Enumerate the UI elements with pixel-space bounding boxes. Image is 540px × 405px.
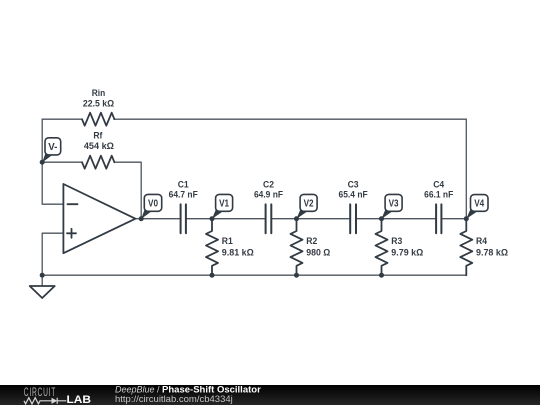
node V- bbox=[42, 138, 61, 163]
resistor R4 bbox=[460, 219, 472, 276]
wire C3 to C4 bbox=[356, 218, 436, 220]
capacitor C3 bbox=[350, 204, 356, 233]
junction V4 bbox=[464, 216, 469, 221]
capacitor C2 bbox=[266, 204, 272, 233]
label C2 64.9 nF bbox=[254, 180, 283, 201]
svg-text:9.78 kΩ: 9.78 kΩ bbox=[476, 247, 508, 258]
node V4 bbox=[466, 195, 488, 219]
resistor Rf bbox=[82, 156, 114, 169]
wire plus input to ground rail bbox=[42, 233, 63, 275]
svg-text:V2: V2 bbox=[304, 199, 314, 210]
resistor R2 bbox=[291, 219, 303, 276]
svg-text:R4: R4 bbox=[476, 236, 488, 247]
label C3 65.4 nF bbox=[339, 180, 368, 201]
label R1 9.81 kOhm bbox=[222, 236, 254, 258]
node V0 bbox=[141, 194, 162, 219]
svg-text:454 kΩ: 454 kΩ bbox=[84, 141, 114, 152]
svg-text:V-: V- bbox=[48, 142, 57, 153]
svg-text:64.7 nF: 64.7 nF bbox=[169, 190, 198, 201]
capacitor C1 bbox=[181, 204, 186, 233]
junction V2 bbox=[294, 216, 299, 221]
wire top feedback left-to-right bbox=[42, 118, 466, 120]
wire C2 to C3 bbox=[271, 218, 350, 220]
svg-text:LAB: LAB bbox=[67, 394, 92, 405]
svg-text:66.1 nF: 66.1 nF bbox=[424, 190, 453, 201]
svg-text:V1: V1 bbox=[219, 199, 230, 210]
svg-text:64.9 nF: 64.9 nF bbox=[254, 190, 283, 201]
resistor R1 bbox=[206, 219, 218, 276]
junction ground node bbox=[40, 273, 45, 278]
footer bar bbox=[0, 385, 540, 405]
wire left vertical (V- net) bbox=[42, 119, 63, 204]
resistor R3 bbox=[376, 219, 388, 276]
junction R2 bottom bbox=[294, 273, 299, 278]
svg-text:65.4 nF: 65.4 nF bbox=[339, 190, 368, 201]
svg-text:R3: R3 bbox=[391, 236, 402, 247]
node V3 bbox=[382, 194, 403, 219]
wire Rf branch bbox=[42, 162, 141, 219]
junction V1 bbox=[210, 216, 215, 221]
node V2 bbox=[297, 194, 318, 219]
label C4 66.1 nF bbox=[424, 180, 453, 201]
svg-text:9.79 kΩ: 9.79 kΩ bbox=[391, 247, 423, 258]
wire C4 to V4 bbox=[441, 218, 466, 220]
op-amp bbox=[63, 184, 135, 253]
wire right vertical (V4 to top) bbox=[465, 119, 467, 219]
junction V3 bbox=[379, 216, 384, 221]
resistor Rin bbox=[82, 113, 114, 126]
junction R1 bottom bbox=[210, 273, 215, 278]
junction R3 bottom bbox=[379, 273, 384, 278]
svg-text:980 Ω: 980 Ω bbox=[306, 247, 330, 258]
node V1 bbox=[212, 194, 233, 219]
capacitor C4 bbox=[436, 204, 441, 233]
footer logo CIRCUIT bbox=[24, 386, 56, 400]
ground bbox=[30, 275, 55, 298]
svg-text:V0: V0 bbox=[148, 199, 158, 210]
label C1 64.7 nF bbox=[169, 180, 198, 201]
wire bottom ground rail bbox=[42, 274, 466, 276]
label Rf 454 kOhm bbox=[84, 131, 114, 152]
junction V0 bbox=[139, 216, 144, 221]
svg-text:22.5 kΩ: 22.5 kΩ bbox=[83, 98, 115, 109]
svg-text:R1: R1 bbox=[222, 236, 234, 247]
svg-text:R2: R2 bbox=[306, 236, 317, 247]
label R3 9.79 kOhm bbox=[391, 236, 423, 258]
svg-text:V4: V4 bbox=[474, 199, 485, 210]
wire C1 to C2 bbox=[186, 218, 266, 220]
svg-text:http://circuitlab.com/cb4334j: http://circuitlab.com/cb4334j bbox=[115, 394, 233, 405]
label R4 9.78 kOhm bbox=[476, 236, 508, 258]
junction V- bbox=[40, 160, 45, 165]
label Rin 22.5 kOhm bbox=[83, 88, 115, 109]
wire op-amp output to C1 bbox=[135, 218, 180, 220]
svg-text:V3: V3 bbox=[389, 199, 400, 210]
label R2 980 Ohm bbox=[306, 236, 330, 258]
footer logo symbol bbox=[24, 398, 66, 404]
svg-text:9.81 kΩ: 9.81 kΩ bbox=[222, 247, 254, 258]
